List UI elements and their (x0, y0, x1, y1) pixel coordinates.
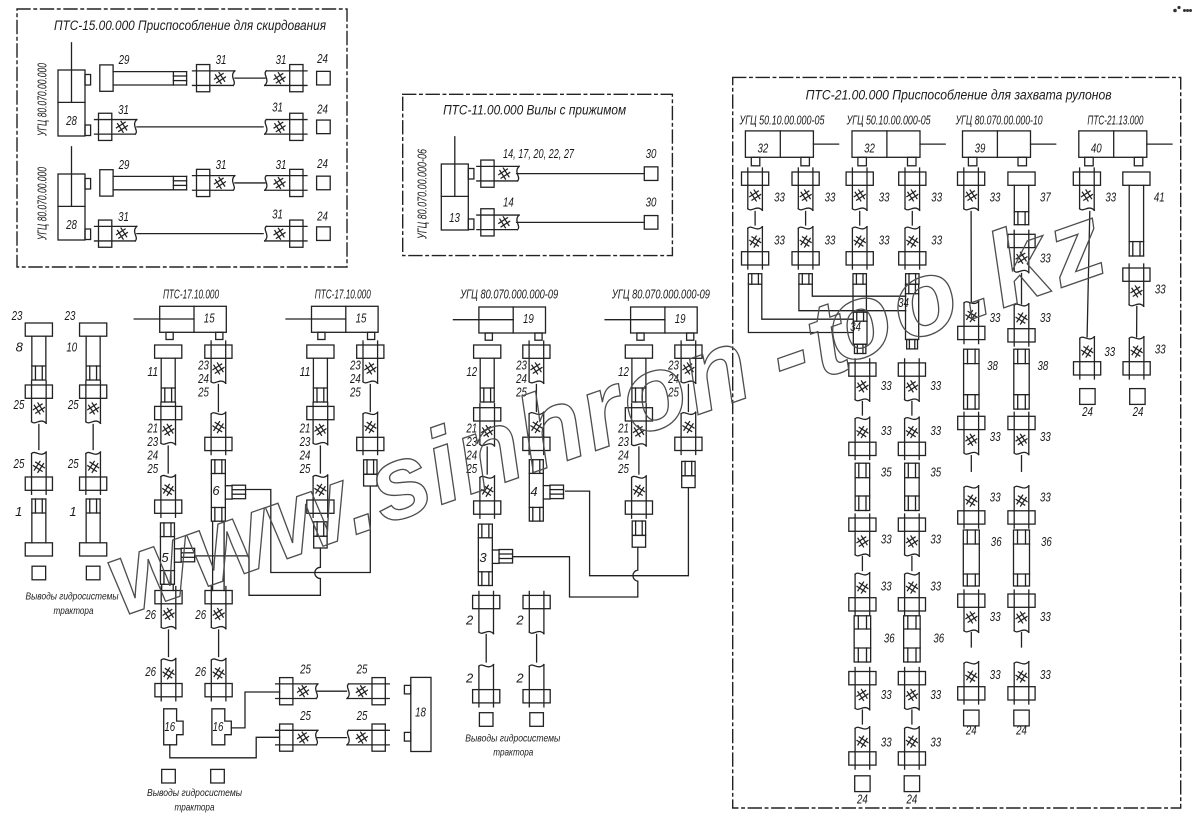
frame: box PTS-15.00.000 (17, 9, 347, 267)
union 35 (855, 463, 870, 510)
hose 21,23,24,25 (lower) (474, 476, 501, 518)
svg-text:25: 25 (13, 397, 25, 412)
svg-text:33: 33 (990, 190, 1001, 205)
tee 5 (160, 523, 194, 584)
wire (1087, 212, 1090, 338)
tractor outlet square (86, 566, 100, 580)
svg-text:ПТС-21.00.000 Приспособление д: ПТС-21.00.000 Приспособление для захвата… (806, 88, 1112, 103)
hose 33 (lower) (898, 573, 925, 615)
svg-text:26: 26 (144, 664, 156, 679)
wire (218, 630, 220, 657)
svg-text:33: 33 (1155, 342, 1166, 357)
svg-text:25: 25 (67, 397, 79, 412)
cylinder 40 (ПТС-21.13.000) (1079, 131, 1172, 166)
svg-text:33: 33 (990, 667, 1001, 682)
svg-text:35: 35 (930, 465, 941, 480)
manifold 18 (404, 677, 431, 751)
hose 23,24,25 (upper) (357, 341, 384, 383)
connector 1 (25, 499, 52, 556)
wire (317, 690, 346, 692)
wire (859, 212, 861, 226)
wire (1136, 307, 1138, 338)
svg-text:29: 29 (118, 52, 130, 67)
hose 33 (upper) (1073, 168, 1100, 210)
svg-text:УГЦ 80.070.00.000-10: УГЦ 80.070.00.000-10 (955, 113, 1043, 128)
wire (911, 557, 913, 571)
hose 33 (upper) (898, 514, 925, 556)
cylinder 19 (УГЦ 80.070.000.000-09) (453, 307, 545, 340)
hose 25 (upper) (80, 381, 107, 423)
hose 21,23,24,25 (lower) (625, 476, 652, 518)
svg-text:Выводы гидросистемы: Выводы гидросистемы (26, 591, 119, 603)
svg-text:33: 33 (825, 233, 836, 248)
svg-text:33: 33 (930, 532, 941, 547)
svg-text:25: 25 (356, 662, 368, 677)
adapter under right leg (364, 460, 377, 486)
wire (911, 212, 913, 226)
hose 2 (lower) (473, 665, 500, 707)
svg-text:33: 33 (930, 579, 941, 594)
hose 33 (lower) (846, 227, 873, 269)
wire (137, 233, 263, 235)
hose 33 (upper) (958, 412, 985, 454)
svg-text:ПТС-21.13.000: ПТС-21.13.000 (1087, 113, 1143, 128)
svg-text:33: 33 (990, 609, 1001, 624)
wire tee 3 to cylinder 19-2 left leg (with hop) (513, 547, 638, 597)
wire (235, 182, 265, 184)
svg-text:33: 33 (774, 233, 785, 248)
hose 33 (lower) (1123, 337, 1150, 379)
svg-text:12: 12 (466, 364, 477, 379)
adapter under left leg (314, 522, 327, 548)
svg-text:2: 2 (465, 671, 474, 686)
cylinder 28b (УГЦ 80.070.00.000) (58, 147, 91, 240)
cylinder 39 (УГЦ 80.070.00.000-10) (963, 131, 1056, 166)
svg-text:УГЦ 80.070.000.000-09: УГЦ 80.070.000.000-09 (611, 287, 710, 302)
tractor outlet square (479, 713, 493, 727)
svg-text:УГЦ 50.10.00.000-05: УГЦ 50.10.00.000-05 (739, 113, 825, 128)
svg-text:11: 11 (300, 364, 311, 379)
svg-text:Выводы гидросистемы: Выводы гидросистемы (465, 733, 560, 745)
wire (535, 385, 537, 412)
hose 33 (lower) (1008, 304, 1035, 346)
wire (517, 173, 644, 175)
cap 24 (904, 776, 919, 792)
cap 24 (317, 120, 331, 134)
hose 33 (upper) (1123, 264, 1150, 306)
svg-text:трактора: трактора (493, 747, 533, 759)
svg-text:трактора: трактора (175, 802, 215, 814)
hose 33 (lower) (898, 727, 925, 769)
svg-text:28: 28 (65, 217, 77, 232)
hose 26 (upper) (155, 587, 182, 629)
hose 21,23,24,25 (upper) (625, 404, 652, 446)
svg-text:29: 29 (118, 157, 130, 172)
svg-text:33: 33 (931, 190, 942, 205)
svg-text:31: 31 (276, 157, 287, 172)
connector 37 (1008, 172, 1035, 225)
hose 23,24,25 (lower) (523, 412, 550, 454)
adapter under right leg (682, 461, 695, 487)
hose 33 (lower) (849, 573, 876, 615)
svg-text:40: 40 (1091, 141, 1102, 156)
wire 16 right to hose 25 row 1 (231, 692, 279, 728)
svg-text:ПТС-17.10.000: ПТС-17.10.000 (163, 287, 219, 302)
svg-text:31: 31 (272, 100, 283, 115)
svg-text:33: 33 (930, 423, 941, 438)
wire (861, 402, 863, 416)
union under cylinder 32-1 right leg (799, 274, 812, 285)
cap 24 (964, 710, 979, 726)
svg-text:30: 30 (646, 146, 657, 161)
cylinder 15 (ПТС-17.10.000) (134, 306, 226, 339)
hose 21,23,24,25 (upper) (155, 402, 182, 444)
wire (687, 385, 689, 412)
connector 12 (474, 345, 501, 402)
svg-text:1: 1 (69, 504, 76, 519)
svg-text:33: 33 (1155, 282, 1166, 297)
wire (369, 385, 371, 412)
elbow connector 16 (left) (164, 709, 183, 745)
hose 33 (upper) (742, 168, 769, 210)
svg-text:ПТС-17.10.000: ПТС-17.10.000 (315, 287, 371, 302)
cap 24 (855, 776, 870, 792)
hose 33 (lower) (958, 301, 985, 343)
hose 33 (lower) (849, 417, 876, 459)
wire (517, 221, 644, 223)
svg-text:36: 36 (884, 631, 895, 646)
svg-text:36: 36 (933, 631, 944, 646)
connector 11 (155, 345, 182, 402)
wire (805, 212, 807, 226)
svg-text:33: 33 (990, 429, 1001, 444)
cap 24 (1080, 389, 1095, 405)
svg-text:35: 35 (881, 465, 892, 480)
svg-text:23: 23 (11, 308, 23, 323)
pipe to tee 34-1 (852, 284, 854, 312)
svg-text:8: 8 (16, 340, 24, 355)
hose 25 (lower) (25, 452, 52, 494)
svg-text:Выводы гидросистемы: Выводы гидросистемы (147, 787, 242, 799)
hose 25 (lower) (80, 452, 107, 494)
hose 25 (left) (276, 678, 318, 705)
hose 31 (left) (95, 220, 137, 247)
svg-text:31: 31 (216, 52, 227, 67)
svg-text:УГЦ 80.070.00.000-06: УГЦ 80.070.00.000-06 (414, 148, 429, 239)
svg-text:19: 19 (523, 311, 534, 326)
svg-text:24: 24 (316, 51, 328, 66)
svg-text:УГЦ 80.070.00.000: УГЦ 80.070.00.000 (35, 167, 50, 241)
svg-text:14, 17, 20, 22, 27: 14, 17, 20, 22, 27 (503, 146, 575, 161)
union 36 (854, 616, 871, 662)
union 36 (963, 530, 979, 586)
hose 33 (upper) (849, 359, 876, 401)
svg-text:24: 24 (965, 723, 977, 738)
svg-text:25: 25 (197, 385, 209, 400)
wire (168, 630, 170, 657)
wire (911, 710, 913, 724)
tractor outlet square (32, 566, 46, 580)
connector 23 item 10 (80, 323, 107, 380)
cap 30 (644, 216, 658, 230)
svg-text:16: 16 (164, 719, 175, 734)
hose 33 (lower) (849, 727, 876, 769)
tee 3 (478, 524, 512, 585)
elbow connector 16 (right) (212, 709, 231, 745)
svg-text:10: 10 (66, 340, 77, 355)
svg-text:36: 36 (1041, 534, 1052, 549)
svg-text:13: 13 (449, 210, 460, 225)
union 38 (964, 349, 979, 409)
cylinder 32 (УГЦ 50.10.00.000-05) (852, 131, 945, 166)
hose 2 (lower) (523, 665, 550, 707)
svg-text:33: 33 (774, 190, 785, 205)
svg-text:2: 2 (515, 613, 524, 628)
svg-text:33: 33 (881, 687, 892, 702)
svg-text:33: 33 (990, 490, 1001, 505)
svg-text:25: 25 (299, 662, 311, 677)
wire (536, 635, 538, 663)
svg-text:18: 18 (415, 705, 426, 720)
wire tee 6 to cylinder 15-2 right leg (246, 486, 370, 572)
svg-text:30: 30 (646, 195, 657, 210)
hose 25 (left) (276, 724, 318, 751)
svg-text:33: 33 (1040, 490, 1051, 505)
wire (485, 635, 487, 663)
tee 6 (211, 460, 245, 521)
cap 30 (644, 167, 658, 181)
hose 31 (left) (193, 65, 235, 92)
svg-text:25: 25 (147, 461, 159, 476)
wire (235, 77, 265, 79)
tractor outlet square (162, 769, 176, 783)
svg-text:39: 39 (975, 141, 986, 156)
hose 33 (upper) (958, 168, 985, 210)
svg-text:32: 32 (864, 141, 875, 156)
hose 31 (right) (265, 220, 307, 247)
hose 25 (right) (347, 724, 389, 751)
tractor outlet square (530, 713, 544, 727)
svg-text:ПТС-15.00.000 Приспособление д: ПТС-15.00.000 Приспособление для скирдов… (54, 18, 326, 33)
connector 29 (100, 65, 187, 91)
tee 4 (529, 460, 563, 521)
svg-text:25: 25 (356, 708, 368, 723)
svg-text:33: 33 (881, 735, 892, 750)
hose 31 (left) (193, 169, 235, 196)
wire tee 4 to cylinder 19-2 right leg (566, 488, 689, 576)
wire (167, 446, 169, 473)
svg-text:15: 15 (204, 311, 215, 326)
wire (911, 402, 913, 416)
frame: box PTS-11.00.000 (403, 94, 673, 255)
tee 6 to hose 26 stem (212, 521, 214, 590)
svg-text:33: 33 (881, 532, 892, 547)
hose 33 (upper) (898, 359, 925, 401)
connector 1 (80, 499, 107, 556)
wire (486, 447, 488, 474)
cap 24 (317, 71, 331, 85)
wire (970, 212, 972, 303)
svg-text:31: 31 (118, 102, 129, 117)
svg-text:24: 24 (1132, 404, 1144, 419)
hose 33 (lower) (1008, 662, 1035, 704)
union under cylinder 32-2 left leg (853, 274, 866, 285)
hose 21,23,24,25 (upper) (474, 404, 501, 446)
tee 5 to hose 26 stem (161, 584, 163, 590)
svg-text:38: 38 (987, 358, 998, 373)
svg-text:36: 36 (991, 534, 1002, 549)
tee 34 (right) (906, 284, 919, 349)
cylinder 13 (УГЦ 80.070.00.000-06) (441, 137, 474, 230)
hose 33 (lower) (958, 662, 985, 704)
cylinder 15 (ПТС-17.10.000) (286, 306, 378, 339)
wire (137, 126, 263, 128)
svg-text:33: 33 (930, 687, 941, 702)
hose 33 (upper) (846, 168, 873, 210)
svg-text:33: 33 (930, 735, 941, 750)
svg-text:24: 24 (316, 209, 328, 224)
hose 21,23,24,25 (lower) (307, 475, 334, 517)
cylinder 19 (УГЦ 80.070.000.000-09) (605, 307, 697, 340)
tractor outlet square (211, 769, 225, 783)
wire (970, 633, 972, 648)
frame: box PTS-21.00.000 (733, 77, 1181, 808)
corner marks (1173, 6, 1192, 12)
hose 25 (upper) (25, 381, 52, 423)
svg-text:16: 16 (213, 719, 224, 734)
hose 33 (upper) (899, 168, 926, 210)
elbow pipe to tee 34-1 (748, 284, 853, 332)
cylinder 32 (УГЦ 50.10.00.000-05) (745, 131, 838, 166)
connector 11 (307, 345, 334, 402)
svg-text:31: 31 (276, 52, 287, 67)
svg-text:1: 1 (15, 504, 22, 519)
hose 23,24,25 (lower) (357, 412, 384, 454)
wire (1021, 274, 1023, 305)
svg-text:38: 38 (1038, 358, 1049, 373)
cap 24 (317, 176, 331, 190)
hose 23,24,25 (upper) (675, 341, 702, 383)
svg-text:2: 2 (465, 613, 474, 628)
svg-text:33: 33 (1040, 609, 1051, 624)
hose 21,23,24,25 (lower) (155, 475, 182, 517)
cap 24 (317, 227, 331, 241)
wire (1021, 633, 1023, 648)
hose 23,24,25 (lower) (205, 412, 232, 454)
hose 14 (477, 209, 519, 236)
svg-text:25: 25 (349, 385, 361, 400)
svg-text:33: 33 (879, 190, 890, 205)
svg-text:2: 2 (515, 671, 524, 686)
svg-text:31: 31 (272, 207, 283, 222)
wire (754, 212, 756, 226)
connector 12 (625, 345, 652, 402)
cap 24 (1130, 389, 1145, 405)
svg-text:33: 33 (881, 423, 892, 438)
svg-text:28: 28 (65, 113, 77, 128)
svg-text:15: 15 (356, 311, 367, 326)
wire (217, 385, 219, 412)
svg-text:11: 11 (147, 364, 158, 379)
hose 23,24,25 (lower) (675, 412, 702, 454)
svg-text:24: 24 (316, 102, 328, 117)
hose 33 (upper) (849, 514, 876, 556)
hose 14, 17, 20, 22, 27 (477, 160, 519, 187)
svg-text:33: 33 (1040, 429, 1051, 444)
connector 23 item 8 (25, 323, 52, 380)
svg-text:24: 24 (906, 792, 918, 807)
union under cylinder 32-1 left leg (748, 274, 761, 285)
hose 33 (upper) (1008, 412, 1035, 454)
svg-text:24: 24 (1081, 404, 1093, 419)
hose 33 (upper) (849, 668, 876, 710)
svg-text:ПТС-11.00.000 Вилы с прижимом: ПТС-11.00.000 Вилы с прижимом (443, 103, 626, 118)
wire (319, 446, 321, 473)
svg-text:24: 24 (316, 156, 328, 171)
svg-text:трактора: трактора (54, 605, 94, 617)
cap 24 (1014, 710, 1029, 726)
svg-text:33: 33 (879, 233, 890, 248)
hose 33 (lower) (899, 227, 926, 269)
connector 41 (1123, 172, 1150, 256)
connector 29 (100, 170, 187, 196)
tee 34 (left) (853, 312, 867, 353)
hose 33 (lower) (1008, 486, 1035, 528)
hose 23,24,25 (upper) (523, 341, 550, 383)
hose 33 (upper) (1008, 230, 1035, 272)
svg-text:24: 24 (1015, 723, 1027, 738)
svg-text:33: 33 (1104, 344, 1115, 359)
adapter under left leg (632, 521, 645, 547)
wire (638, 447, 640, 474)
hose 31 (right) (265, 113, 307, 140)
union 36 (904, 616, 921, 662)
hose 33 (lower) (742, 227, 769, 269)
svg-text:33: 33 (1105, 190, 1116, 205)
hose 26 (lower) (155, 659, 182, 701)
svg-text:33: 33 (1040, 667, 1051, 682)
hose 33 (upper) (958, 590, 985, 632)
svg-text:33: 33 (881, 579, 892, 594)
hose 33 (lower) (958, 486, 985, 528)
hose 33 (upper) (792, 168, 819, 210)
svg-text:25: 25 (13, 456, 25, 471)
union 36 (1014, 530, 1030, 586)
elbow pipe to tee 34-2 (799, 284, 906, 311)
svg-text:31: 31 (118, 209, 129, 224)
svg-text:УГЦ 50.10.00.000-05: УГЦ 50.10.00.000-05 (846, 113, 931, 128)
svg-text:23: 23 (64, 308, 76, 323)
svg-text:14: 14 (503, 195, 514, 210)
svg-text:33: 33 (881, 378, 892, 393)
hose 31 (left) (95, 113, 137, 140)
hose 33 (lower) (1074, 337, 1101, 379)
hose 21,23,24,25 (upper) (307, 402, 334, 444)
hose 31 (right) (265, 169, 307, 196)
hose 23,24,25 (upper) (205, 341, 232, 383)
svg-text:32: 32 (758, 141, 769, 156)
wire 16 left to hose 25 row 2 (170, 737, 280, 758)
hose 33 (upper) (898, 668, 925, 710)
wire (1021, 456, 1023, 472)
hose 26 (lower) (205, 659, 232, 701)
hose 33 (upper) (1008, 590, 1035, 632)
svg-text:УГЦ 80.070.00.000: УГЦ 80.070.00.000 (35, 63, 50, 137)
svg-text:УГЦ 80.070.000.000-09: УГЦ 80.070.000.000-09 (459, 287, 558, 302)
svg-text:24: 24 (856, 792, 868, 807)
hose 25 (right) (347, 678, 389, 705)
wire (92, 425, 94, 450)
